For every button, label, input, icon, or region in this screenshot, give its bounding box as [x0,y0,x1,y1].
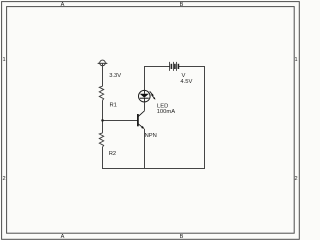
svg-text:1: 1 [294,57,297,63]
svg-text:2: 2 [294,176,297,182]
svg-text:3.3V: 3.3V [109,73,121,79]
svg-text:B: B [180,2,184,8]
LED emission arrow 2 [151,95,155,100]
wire right rail [204,66,206,169]
wire collector to LED [144,102,146,111]
svg-text:NPN: NPN [145,133,157,139]
LED emission arrow 1 [150,91,154,96]
resistor R2 [99,133,103,147]
svg-text:A: A [61,2,65,8]
wire R1 to R2 [102,100,104,133]
wire power to R1 [102,63,104,86]
svg-text:4.5V: 4.5V [180,79,192,85]
wire emitter to bottom rail [144,129,146,169]
LED D1 [139,90,151,102]
wire base node to transistor base [103,120,138,122]
svg-text:100mA: 100mA [157,109,176,115]
svg-text:R1: R1 [110,102,117,108]
svg-text:1: 1 [2,57,5,63]
wire top rail right: battery to corner [179,66,206,68]
battery V1 4.5V [170,62,179,71]
wire R2 to bottom rail [102,147,104,169]
svg-text:A: A [61,234,65,240]
junction dot [101,119,104,122]
power supply symbol 3.3V [97,60,108,66]
transistor Q1 NPN [138,111,145,129]
wire top rail left: LED column to battery [145,67,170,91]
resistor R1 [99,86,103,100]
svg-text:2: 2 [2,176,5,182]
wire bottom rail [102,168,205,170]
svg-text:R2: R2 [109,151,116,157]
svg-text:B: B [180,234,184,240]
